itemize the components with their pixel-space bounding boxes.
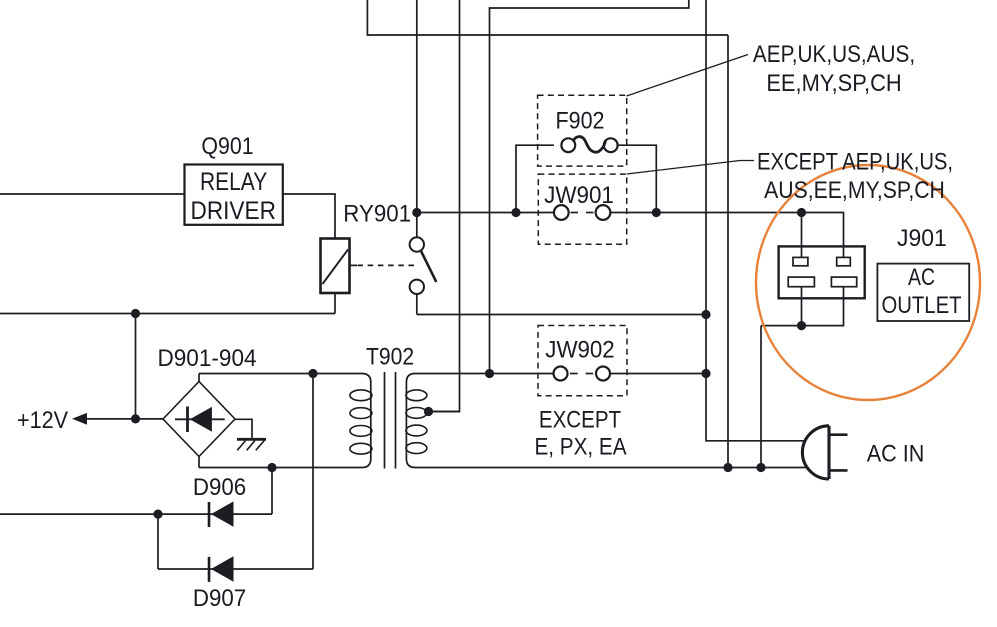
bridge inner diode axis line [175, 418, 225, 420]
wire D907 riser to winding top [312, 374, 314, 570]
wire Q901 output to relay coil [283, 194, 335, 239]
jumper JW901 left terminal [554, 205, 569, 220]
wire top jog down to JW902 line [490, 0, 689, 374]
svg-text:D907: D907 [193, 584, 246, 611]
connector J901 upper-left prong [793, 257, 808, 265]
fuse F902 right terminal [604, 138, 618, 152]
switch RY901 bottom contact [410, 280, 424, 294]
svg-text:J901: J901 [897, 225, 947, 252]
jumper JW901 right terminal [596, 205, 611, 220]
wire switch output down [416, 294, 418, 315]
jumper JW902 gap dashes [570, 373, 578, 375]
node relay common junction [412, 208, 421, 217]
wire bridge right to ground [235, 419, 252, 438]
wire D906 riser to winding bottom [271, 468, 273, 515]
svg-text:D906: D906 [193, 473, 246, 500]
diode D907 triangle [211, 556, 234, 581]
svg-text:RY901: RY901 [343, 200, 411, 227]
wire main AC row from JW901 to J901 corner [610, 213, 843, 258]
fuse F902 element squiggle [574, 137, 606, 153]
node transformer tap [424, 407, 433, 416]
svg-text:JW901: JW901 [544, 181, 614, 208]
wire vertical B from top rail down to AC IN line [727, 35, 729, 468]
svg-text:+12V: +12V [17, 406, 69, 433]
wire J901 feed left prong [801, 213, 803, 258]
diode D906 triangle [211, 501, 234, 526]
wire D907 row [158, 568, 313, 570]
node JW902 line on vertical A [701, 369, 710, 378]
node switched line on vertical A [701, 310, 710, 319]
ground bar [237, 438, 266, 441]
plug AC IN shell arc [802, 426, 829, 479]
svg-text:EXCEPT AEP,UK,US,: EXCEPT AEP,UK,US, [757, 148, 953, 175]
svg-text:DRIVER: DRIVER [191, 197, 276, 225]
jumper JW901 gap dashes [571, 212, 579, 214]
connector J901 outlet body [779, 246, 865, 298]
relay coil RY901 [321, 239, 350, 294]
orange highlight circle around J901 [756, 165, 980, 400]
wire relay coil bottom to +12V rail [334, 293, 336, 314]
node F902 left junction [511, 208, 520, 217]
svg-text:Q901: Q901 [201, 132, 253, 159]
wire vertical A from top down to AC IN upper lead [706, 0, 804, 441]
wire relay common drop to switch [416, 213, 418, 238]
wire F902 branch right riser [618, 145, 657, 212]
node D906 riser junction [267, 463, 276, 472]
node vertical B on AC IN line [723, 463, 732, 472]
+12V arrow head [72, 413, 87, 425]
svg-text:AUS,EE,MY,SP,CH: AUS,EE,MY,SP,CH [764, 176, 945, 204]
svg-text:T902: T902 [366, 343, 414, 370]
connector J901 upper-right prong [837, 257, 851, 265]
relay actuation dashed link [350, 264, 358, 266]
svg-text:F902: F902 [555, 106, 604, 133]
node +12V rail junction [131, 309, 140, 318]
dashed box JW902 [538, 326, 627, 396]
svg-text:D901-904: D901-904 [157, 345, 256, 372]
connector J901 lower-right prong [831, 277, 856, 287]
node J901 return on AC IN line [756, 463, 765, 472]
wire low-voltage winding return [0, 513, 272, 515]
wire main AC row from relay junction to F902 branch [417, 212, 554, 214]
box AC OUTLET label [877, 264, 969, 321]
plug AC IN flat face [827, 426, 830, 479]
wire F902 branch left riser [516, 145, 554, 212]
node D907 branch junction [153, 509, 162, 518]
wire top vertical into H-rail [367, 0, 728, 35]
jumper JW902 left terminal [554, 367, 568, 381]
wire vertical to transformer tap [429, 0, 460, 412]
wire transformer tap stub [429, 411, 460, 413]
transformer T902 secondary lead loop [406, 374, 805, 468]
wire J901 return to AC IN line [760, 326, 762, 468]
bridge inner diode bar [186, 407, 189, 433]
switch RY901 top contact [410, 237, 424, 251]
svg-text:AC: AC [908, 263, 935, 290]
wire bridge bottom stub [198, 457, 200, 468]
wire J901 right prong bottom drop [761, 287, 844, 326]
svg-text:EXCEPT: EXCEPT [539, 406, 621, 433]
wire into Q901 relay driver [0, 193, 185, 195]
transformer T902 core [384, 372, 386, 469]
wire J901 left prong bottom drop [801, 287, 803, 326]
node J901 top junction [797, 208, 806, 217]
diode D906 bar [208, 502, 211, 527]
transformer T902 primary winding loops [350, 390, 372, 401]
dashed box F902 [538, 95, 627, 166]
node bridge output junction [131, 414, 140, 423]
op-amp/box Q901 RELAY DRIVER [185, 165, 283, 225]
bridge inner diode triangle [190, 407, 212, 432]
bridge rectifier D901-904 diamond [163, 382, 235, 457]
leader line to EXCEPT AEP country note [627, 161, 754, 175]
svg-text:JW902: JW902 [545, 336, 614, 363]
wire vertical feeding relay common RY901 [416, 0, 418, 213]
wire switched line to vertical A [417, 314, 706, 316]
svg-text:RELAY: RELAY [200, 167, 267, 195]
svg-text:AEP,UK,US,AUS,: AEP,UK,US,AUS, [753, 41, 915, 68]
svg-text:AC IN: AC IN [867, 439, 925, 466]
transformer T902 secondary winding loops [406, 390, 427, 401]
wire JW902 output to vertical A [610, 373, 706, 375]
plug AC IN prongs [829, 433, 848, 436]
node JW902 feed junction [485, 369, 494, 378]
relay coil diagonal [323, 250, 349, 285]
node F902 right junction [652, 208, 661, 217]
svg-text:OUTLET: OUTLET [881, 292, 962, 319]
jumper JW902 right terminal [596, 367, 610, 381]
wire bridge top stub [198, 374, 200, 382]
switch RY901 blade [421, 251, 437, 282]
svg-text:E, PX, EA: E, PX, EA [534, 433, 626, 460]
dashed box JW901 [538, 174, 626, 244]
wire D907 branch left drop [157, 514, 159, 569]
wire bridge output to +12V arrow [86, 418, 163, 420]
ground hatch strokes [237, 441, 245, 451]
wire +12V rail [0, 313, 335, 315]
wire +12V rail drop to bridge output [135, 314, 137, 419]
diode D907 bar [208, 557, 211, 582]
transformer T902 primary lead loop [199, 374, 371, 468]
node J901 bottom junction [797, 321, 806, 330]
node D907 riser junction [308, 369, 317, 378]
svg-text:EE,MY,SP,CH: EE,MY,SP,CH [766, 69, 901, 96]
connector J901 lower-left prong [788, 277, 814, 287]
leader line to AEP country note [627, 55, 749, 97]
fuse F902 left terminal [561, 138, 575, 152]
